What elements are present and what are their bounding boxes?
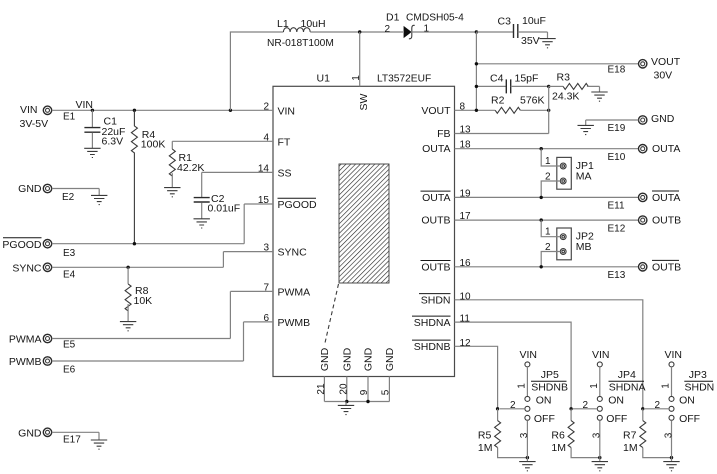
wire SHDNA-bar pin 11 to JP4 xyxy=(455,322,572,409)
node VIN/C1 xyxy=(91,109,94,112)
svg-text:24.3K: 24.3K xyxy=(552,91,579,103)
IC U1 body xyxy=(273,86,455,376)
terminal E1 xyxy=(43,106,51,114)
svg-text:17: 17 xyxy=(460,211,472,222)
svg-text:3: 3 xyxy=(663,432,674,438)
node PGOOD/R4 xyxy=(133,242,136,245)
svg-text:35V: 35V xyxy=(521,35,540,47)
wire JP2 pin 1 xyxy=(541,220,560,237)
jumper JP1 xyxy=(557,157,572,189)
capacitor C2 xyxy=(194,198,210,219)
wire SS pin 14 to C2 xyxy=(202,172,273,197)
svg-text:19: 19 xyxy=(460,188,472,199)
svg-text:PWMA: PWMA xyxy=(9,334,42,346)
svg-text:PGOOD: PGOOD xyxy=(2,239,42,251)
svg-text:2: 2 xyxy=(545,242,551,253)
terminal E5 xyxy=(43,334,51,342)
jumper JP3 xyxy=(645,362,674,458)
svg-text:GND: GND xyxy=(342,347,354,371)
svg-text:R7: R7 xyxy=(623,430,637,442)
svg-text:ON: ON xyxy=(679,395,695,407)
svg-text:1M: 1M xyxy=(551,442,566,454)
svg-text:3V-5V: 3V-5V xyxy=(20,118,49,130)
capacitor C1 xyxy=(84,110,100,148)
label SHDNB-bar (JP5) xyxy=(531,381,568,394)
svg-text:PWMA: PWMA xyxy=(278,286,311,298)
wire FB pin 13 xyxy=(455,86,549,133)
svg-text:6.3V: 6.3V xyxy=(102,135,124,147)
svg-text:OUTB: OUTB xyxy=(421,215,450,227)
svg-text:MB: MB xyxy=(576,241,592,253)
svg-text:E12: E12 xyxy=(608,224,626,235)
pin name PGOOD-bar xyxy=(278,198,318,211)
svg-text:MA: MA xyxy=(576,171,592,183)
svg-text:OFF: OFF xyxy=(606,413,627,425)
svg-text:SW: SW xyxy=(358,93,370,110)
svg-text:OFF: OFF xyxy=(534,413,555,425)
svg-text:10uF: 10uF xyxy=(522,15,546,27)
svg-text:VOUT: VOUT xyxy=(651,56,681,68)
node R2 left xyxy=(475,109,478,112)
wire SHDN-bar pin 10 to JP3 xyxy=(455,300,643,409)
svg-text:CMDSH05-4: CMDSH05-4 xyxy=(406,13,464,24)
svg-text:18: 18 xyxy=(460,140,472,151)
svg-text:0.01uF: 0.01uF xyxy=(208,203,241,215)
svg-text:1: 1 xyxy=(545,156,551,167)
svg-text:PGOOD: PGOOD xyxy=(278,199,318,211)
svg-text:16: 16 xyxy=(460,258,472,269)
node GND pin 20 xyxy=(345,400,348,403)
svg-text:D1: D1 xyxy=(386,12,400,24)
terminal E2 xyxy=(43,184,51,192)
wire E17 to ground xyxy=(52,432,99,440)
wire SW pin 1 xyxy=(359,32,361,86)
svg-text:E3: E3 xyxy=(63,248,76,259)
svg-text:OUTB: OUTB xyxy=(421,261,450,273)
label OUTB-bar terminal xyxy=(652,260,681,273)
resistor R7 xyxy=(640,409,672,458)
svg-text:PWMB: PWMB xyxy=(278,317,311,329)
svg-text:OUTA: OUTA xyxy=(652,143,680,155)
resistor R2 with pin 8 stub xyxy=(455,107,549,113)
node VIN/L1 xyxy=(229,109,232,112)
svg-text:R2: R2 xyxy=(491,95,505,107)
ground at E17 xyxy=(91,440,107,449)
node VIN/R4 xyxy=(133,109,136,112)
svg-text:R6: R6 xyxy=(551,430,565,442)
svg-text:R3: R3 xyxy=(557,72,571,84)
svg-text:4: 4 xyxy=(263,132,269,143)
wire JP1 pin 1 xyxy=(541,149,560,166)
svg-text:JP4: JP4 xyxy=(618,369,636,381)
wire JP2 pin 2 xyxy=(541,252,560,267)
label SHDN-bar (JP3) xyxy=(684,381,714,394)
svg-text:1M: 1M xyxy=(623,442,638,454)
ground below C2 xyxy=(194,219,210,228)
diode D1 xyxy=(404,25,415,38)
node OUTBbar/JP2 xyxy=(540,265,543,268)
svg-text:11: 11 xyxy=(460,314,471,325)
svg-text:10K: 10K xyxy=(134,295,153,307)
svg-text:E6: E6 xyxy=(63,365,76,376)
svg-text:2: 2 xyxy=(263,101,269,112)
wire L1 to D1 anode xyxy=(310,31,403,33)
node OUTAbar/JP1 xyxy=(540,196,543,199)
svg-text:3: 3 xyxy=(263,243,269,254)
svg-text:20: 20 xyxy=(338,383,349,395)
wire OUTB-bar pin 16 to E13 xyxy=(455,266,639,268)
resistor R8 xyxy=(125,267,131,321)
wire OUTB pin 17 to E12 xyxy=(455,219,639,221)
ground below JP4 xyxy=(592,458,608,471)
svg-text:21: 21 xyxy=(316,383,327,395)
svg-text:SHDNB: SHDNB xyxy=(414,341,451,353)
svg-text:2: 2 xyxy=(510,400,516,411)
svg-text:NR-018T100M: NR-018T100M xyxy=(267,38,334,49)
wire JP1 pin 2 xyxy=(541,181,560,197)
node C4 left xyxy=(475,85,478,88)
svg-text:FT: FT xyxy=(278,136,291,148)
svg-text:U1: U1 xyxy=(317,73,331,85)
terminal E4 xyxy=(43,263,51,271)
wire VIN input to pin 2 xyxy=(52,109,273,111)
svg-text:SS: SS xyxy=(278,167,292,179)
resistor R3 xyxy=(549,83,600,92)
capacitor C4 xyxy=(476,79,548,93)
pin name OUTB-bar xyxy=(421,261,451,274)
wire VOUT to terminal E18 xyxy=(476,63,638,65)
svg-text:SHDNA: SHDNA xyxy=(609,382,646,394)
pin name SHDN-bar xyxy=(419,294,451,307)
svg-text:OUTA: OUTA xyxy=(422,143,450,155)
svg-text:E19: E19 xyxy=(608,123,626,134)
jumper JP5 xyxy=(500,362,530,458)
wire OUTA-bar pin 19 to E11 xyxy=(455,196,639,198)
wire VIN up to inductor L1 xyxy=(230,32,283,110)
node OUTA/JP1 xyxy=(540,147,543,150)
node SHDN/R7/JP3 xyxy=(641,407,644,410)
svg-text:13: 13 xyxy=(460,125,472,136)
wire E6 to PWMB pin 6 xyxy=(52,322,273,361)
node R2 right xyxy=(547,109,550,112)
svg-text:L1: L1 xyxy=(277,18,289,30)
svg-text:GND: GND xyxy=(319,347,331,371)
svg-text:PWMB: PWMB xyxy=(9,356,42,368)
svg-text:E1: E1 xyxy=(63,112,76,123)
svg-text:8: 8 xyxy=(460,101,466,112)
wire OUTA pin 18 to E10 xyxy=(455,148,639,150)
label SHDNA-bar (JP4) xyxy=(609,381,646,394)
node R7/JP3 pin3 ground xyxy=(670,456,673,459)
svg-text:GND: GND xyxy=(18,427,42,439)
terminal E19 xyxy=(639,116,647,124)
svg-text:2: 2 xyxy=(655,400,661,411)
svg-text:C4: C4 xyxy=(490,73,504,85)
svg-text:ON: ON xyxy=(536,395,552,407)
svg-text:12: 12 xyxy=(460,338,472,349)
node D1/C3 xyxy=(475,30,478,33)
capacitor C3 xyxy=(476,24,547,39)
node GND pin 9 xyxy=(366,400,369,403)
node VOUT/E18 xyxy=(475,62,478,65)
GND pin stubs 21,20,9,5 xyxy=(324,377,389,402)
svg-text:6: 6 xyxy=(263,313,269,324)
wire VOUT vertical rail xyxy=(475,32,477,110)
svg-text:R5: R5 xyxy=(478,430,492,442)
resistor R5 xyxy=(495,409,528,458)
svg-text:15: 15 xyxy=(258,195,270,206)
ground at E2 xyxy=(91,195,107,204)
svg-text:ON: ON xyxy=(608,395,624,407)
ground below C3 xyxy=(539,39,555,48)
terminal E13 xyxy=(639,263,647,271)
terminal E10 xyxy=(639,145,647,153)
svg-text:VIN: VIN xyxy=(520,349,538,361)
svg-text:1: 1 xyxy=(351,75,362,81)
svg-text:FB: FB xyxy=(437,128,450,140)
ground below C1 xyxy=(84,148,100,157)
terminal E6 xyxy=(43,357,51,365)
terminal E12 xyxy=(639,216,647,224)
ground below R1 xyxy=(164,188,180,197)
svg-text:OFF: OFF xyxy=(679,413,700,425)
svg-text:SHDN: SHDN xyxy=(421,294,451,306)
wire GND bus xyxy=(324,401,389,403)
wire E3 to PGOOD pin 15 xyxy=(52,204,273,244)
exposed pad (hatched) xyxy=(339,164,389,283)
svg-text:SHDNA: SHDNA xyxy=(414,317,451,329)
svg-text:C3: C3 xyxy=(498,16,512,28)
svg-text:5: 5 xyxy=(380,389,391,395)
terminal E17 xyxy=(43,428,51,436)
jumper JP4 xyxy=(573,362,602,458)
node SHDNB/R5/JP5 xyxy=(496,407,499,410)
svg-text:VIN: VIN xyxy=(278,105,296,117)
svg-text:E17: E17 xyxy=(63,435,81,446)
svg-text:SYNC: SYNC xyxy=(12,262,42,274)
ground below R3 xyxy=(591,92,607,101)
svg-text:OUTB: OUTB xyxy=(652,215,681,227)
svg-text:3: 3 xyxy=(519,432,530,438)
svg-text:OUTA: OUTA xyxy=(422,192,450,204)
svg-text:100K: 100K xyxy=(141,139,166,151)
svg-text:GND: GND xyxy=(384,347,396,371)
svg-text:576K: 576K xyxy=(520,95,545,107)
svg-text:OUTB: OUTB xyxy=(652,261,681,273)
label OUTA-bar terminal xyxy=(652,191,680,204)
svg-text:E4: E4 xyxy=(63,270,76,281)
resistor R1 xyxy=(169,149,175,188)
svg-text:7: 7 xyxy=(263,282,269,293)
ground below GND bus xyxy=(338,402,354,415)
wire SHDNB-bar pin 12 to JP5 xyxy=(455,346,498,409)
jumper JP2 xyxy=(557,228,572,260)
inductor L1 xyxy=(283,28,310,32)
terminal E18 xyxy=(639,60,647,68)
svg-text:9: 9 xyxy=(359,389,370,395)
wire E4 to SYNC pin 3 xyxy=(52,252,273,268)
node R5/JP5 pin3 ground xyxy=(526,456,529,459)
svg-text:1M: 1M xyxy=(478,442,493,454)
wire E5 to PWMA pin 7 xyxy=(52,291,273,338)
dashed line pad to GND pin xyxy=(325,284,339,345)
ground below R8 xyxy=(120,322,136,331)
pin name SHDNA-bar xyxy=(412,316,451,329)
node OUTB/JP2 xyxy=(540,218,543,221)
svg-text:42.2K: 42.2K xyxy=(177,162,204,174)
node SYNC/R8 xyxy=(126,266,129,269)
resistor R6 xyxy=(568,409,600,458)
svg-text:SYNC: SYNC xyxy=(278,247,308,259)
svg-text:15pF: 15pF xyxy=(515,73,539,85)
wire E19 to ground xyxy=(586,120,639,125)
node SW junction xyxy=(358,30,361,33)
wire D1 cathode to C3/VOUT node xyxy=(412,31,477,33)
svg-text:JP5: JP5 xyxy=(541,369,559,381)
svg-text:LT3572EUF: LT3572EUF xyxy=(377,74,431,85)
svg-text:OUTA: OUTA xyxy=(652,192,680,204)
svg-text:E18: E18 xyxy=(608,65,626,76)
svg-text:3: 3 xyxy=(592,432,603,438)
svg-text:GND: GND xyxy=(363,347,375,371)
resistor R4 xyxy=(131,110,137,243)
svg-text:14: 14 xyxy=(258,163,270,174)
svg-text:1: 1 xyxy=(661,383,672,389)
svg-text:E10: E10 xyxy=(608,152,626,163)
node SHDNA/R6/JP4 xyxy=(569,407,572,410)
svg-text:JP3: JP3 xyxy=(689,369,707,381)
svg-text:2: 2 xyxy=(583,400,589,411)
svg-text:1: 1 xyxy=(589,383,600,389)
svg-text:VIN: VIN xyxy=(592,349,610,361)
svg-text:1: 1 xyxy=(517,383,528,389)
svg-text:GND: GND xyxy=(18,183,42,195)
svg-text:1: 1 xyxy=(545,227,551,238)
label PGOOD-bar terminal xyxy=(2,238,42,251)
wire E2 to ground xyxy=(52,189,99,196)
svg-text:SHDNB: SHDNB xyxy=(531,382,568,394)
ground at E19 xyxy=(578,125,594,134)
svg-text:30V: 30V xyxy=(654,70,673,82)
svg-text:SHDN: SHDN xyxy=(685,382,715,394)
node C4 right / FB xyxy=(547,85,550,88)
terminal E3 xyxy=(43,240,51,248)
svg-text:2: 2 xyxy=(385,24,391,35)
ground below JP5 xyxy=(519,458,535,471)
pin name SHDNB-bar xyxy=(412,340,451,353)
ground below JP3 xyxy=(663,458,679,471)
svg-text:10: 10 xyxy=(460,291,472,302)
svg-text:VIN: VIN xyxy=(76,99,94,111)
svg-text:E11: E11 xyxy=(608,201,625,212)
svg-text:VIN: VIN xyxy=(665,349,683,361)
svg-text:GND: GND xyxy=(651,113,675,125)
terminal E11 xyxy=(639,193,647,201)
svg-text:VIN: VIN xyxy=(20,104,38,116)
svg-text:E2: E2 xyxy=(62,192,75,203)
pin name OUTA-bar xyxy=(421,191,451,204)
svg-text:E5: E5 xyxy=(63,340,76,351)
svg-text:VOUT: VOUT xyxy=(421,105,451,117)
node R6/JP4 pin3 ground xyxy=(598,456,601,459)
wire FT pin 4 to R1 xyxy=(172,141,273,149)
svg-text:E13: E13 xyxy=(608,270,626,281)
svg-text:2: 2 xyxy=(545,172,551,183)
svg-text:1: 1 xyxy=(424,24,430,35)
svg-text:10uH: 10uH xyxy=(301,18,326,30)
